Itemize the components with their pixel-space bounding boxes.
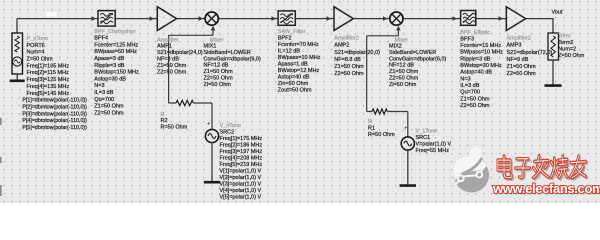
termination Term2 value labels — [558, 34, 585, 60]
svg-text:SAW_Filter: SAW_Filter — [278, 29, 306, 35]
svg-text:N=3: N=3 — [94, 83, 104, 89]
port PORT6 (P_nTone source symbol) — [12, 33, 23, 74]
svg-text:Astop=40 dB: Astop=40 dB — [460, 70, 492, 76]
resistor R2 (MIX1 LO series resistor) — [176, 100, 193, 105]
svg-text:NF=8.8 dB: NF=8.8 dB — [334, 57, 361, 63]
svg-text:Freq[3]=197 MHz: Freq[3]=197 MHz — [220, 149, 263, 155]
svg-text:Z2=50 Ohm: Z2=50 Ohm — [389, 76, 419, 82]
watermark logo circle — [454, 145, 489, 192]
svg-text:R: R — [161, 112, 165, 118]
resistor R2 value labels — [161, 112, 188, 131]
svg-text:Zi=50 Ohm: Zi=50 Ohm — [389, 82, 417, 88]
wire R1 to SRC1 and down — [367, 112, 408, 137]
svg-text:Zout=50 Ohm: Zout=50 Ohm — [278, 88, 312, 94]
svg-text:+: + — [404, 126, 408, 132]
svg-text:SRC2: SRC2 — [220, 130, 235, 136]
svg-text:SRC1: SRC1 — [416, 135, 431, 141]
source SRC1 (V_1Tone LO source) — [401, 137, 414, 150]
svg-text:Apass=1 dB: Apass=1 dB — [278, 62, 308, 68]
svg-text:Zin=50 Ohm: Zin=50 Ohm — [278, 81, 309, 87]
svg-text:NF=12 dB: NF=12 dB — [389, 63, 414, 69]
svg-text:Term2: Term2 — [558, 40, 573, 46]
wire MIX2 LO feed: vertical from R1 loop to mixer — [367, 28, 399, 112]
svg-text:P[1]=dbmtow(polar(-110,0)): P[1]=dbmtow(polar(-110,0)) — [22, 98, 87, 104]
source SRC1 value labels — [416, 129, 452, 155]
svg-text:Astop=40 dB: Astop=40 dB — [278, 75, 310, 81]
svg-text:MIX2: MIX2 — [389, 44, 402, 50]
wire AMP1 output to MIX1 RF input — [177, 18, 206, 20]
svg-text:Amplifier2: Amplifier2 — [507, 36, 531, 42]
svg-text:R=50 Ohm: R=50 Ohm — [161, 125, 188, 131]
svg-text:BWstop=150 MHz: BWstop=150 MHz — [94, 70, 139, 76]
svg-text:Freq[2]=115 MHz: Freq[2]=115 MHz — [27, 70, 69, 76]
svg-text:Amplifier: Amplifier — [157, 37, 179, 43]
svg-text:Fcenter=125 MHz: Fcenter=125 MHz — [94, 42, 138, 48]
svg-text:Zi=50 Ohm: Zi=50 Ohm — [204, 82, 232, 88]
svg-text:Z2=50 Ohm: Z2=50 Ohm — [460, 103, 490, 109]
svg-text:Freq=55 MHz: Freq=55 MHz — [416, 148, 450, 154]
op-amp style amplifier AMP1 — [157, 7, 176, 31]
wire port PORT6 to BPF4 input — [17, 19, 98, 33]
svg-text:Term: Term — [558, 34, 571, 40]
svg-text:Freq[3]=125 MHz: Freq[3]=125 MHz — [27, 77, 70, 83]
svg-text:NF=9 dB: NF=9 dB — [507, 57, 529, 63]
amplifier AMP2 value labels — [334, 36, 380, 78]
svg-text:Z1=50 Ohm: Z1=50 Ohm — [157, 63, 187, 69]
svg-text:V[2]=polar(1,0) V: V[2]=polar(1,0) V — [220, 175, 262, 181]
svg-text:Z1=50 Ohm: Z1=50 Ohm — [507, 64, 537, 70]
svg-text:Astop=30 dB: Astop=30 dB — [94, 76, 126, 82]
svg-text:NF=3 dB: NF=3 dB — [157, 57, 179, 63]
svg-text:P[5]=dbmtow(polar(-110,0)): P[5]=dbmtow(polar(-110,0)) — [22, 125, 87, 131]
amplifier AMP1 value labels — [157, 37, 203, 75]
svg-text:P[4]=dbmtow(polar(-110,0)): P[4]=dbmtow(polar(-110,0)) — [22, 118, 87, 124]
arrowhead into AMP3 — [499, 16, 504, 21]
ground below Term2 — [552, 60, 554, 86]
svg-text:Fcenter=15 MHz: Fcenter=15 MHz — [460, 43, 501, 49]
svg-text:R1: R1 — [368, 126, 375, 132]
arrowhead into AMP1 — [150, 16, 155, 21]
svg-text:V[3]=polar(1,0) V: V[3]=polar(1,0) V — [220, 182, 262, 188]
band-pass filter BPF3 (Elliptic) — [461, 11, 476, 26]
svg-text:SideBand=LOWER: SideBand=LOWER — [389, 50, 436, 56]
svg-text:Qu=700: Qu=700 — [460, 90, 480, 96]
svg-text:Z2=50 Ohm: Z2=50 Ohm — [334, 71, 364, 77]
svg-text:V=polar(1,0) V: V=polar(1,0) V — [416, 142, 452, 148]
arrowhead into AMP2 — [327, 16, 332, 21]
mixer MIX2 type value labels — [395, 38, 409, 44]
svg-text:Z2=50 Ohm: Z2=50 Ohm — [204, 76, 234, 82]
svg-text:Freq[1]=105 MHz: Freq[1]=105 MHz — [27, 63, 70, 69]
filter BPF2 value labels — [278, 29, 321, 94]
svg-text:Vout: Vout — [552, 10, 563, 16]
svg-text:Num=4: Num=4 — [27, 50, 45, 56]
svg-text:Ripple=3 dB: Ripple=3 dB — [94, 63, 124, 69]
svg-text:Freq[4]=135 MHz: Freq[4]=135 MHz — [27, 84, 70, 90]
arrowhead into MIX2 — [383, 16, 388, 21]
band-pass filter BPF4 (Chebyshev) — [98, 11, 115, 27]
svg-text:BPF_Chebyshev: BPF_Chebyshev — [94, 29, 136, 35]
svg-text:IL=3 dB: IL=3 dB — [460, 83, 479, 89]
svg-text:Freq[4]=208 MHz: Freq[4]=208 MHz — [220, 156, 263, 162]
svg-text:Z=50 Ohm: Z=50 Ohm — [558, 53, 585, 59]
svg-text:S21=dbpolar(72,0): S21=dbpolar(72,0) — [507, 50, 553, 56]
svg-text:BWpass=10 MHz: BWpass=10 MHz — [460, 50, 503, 56]
svg-text:NF=12 dB: NF=12 dB — [204, 63, 229, 69]
svg-text:V[1]=polar(1,0) V: V[1]=polar(1,0) V — [220, 169, 262, 175]
ground below PORT6 — [16, 74, 18, 81]
wire MIX1 IF output to BPF2 input — [218, 18, 278, 20]
svg-text:Amplifier2: Amplifier2 — [334, 36, 358, 42]
svg-text:IL=12 dB: IL=12 dB — [278, 49, 301, 55]
svg-text:BWpass=10 MHz: BWpass=10 MHz — [278, 55, 321, 61]
arrowhead into BPF4 — [92, 16, 97, 21]
svg-text:Fcenter=70 MHz: Fcenter=70 MHz — [278, 42, 319, 48]
svg-text:Ripple=3 dB: Ripple=3 dB — [460, 56, 490, 62]
svg-text:Z1=50 Ohm: Z1=50 Ohm — [204, 69, 234, 75]
wire MIX2 IF output to BPF3 input — [403, 18, 461, 20]
svg-text:Z1=50 Ohm: Z1=50 Ohm — [460, 96, 490, 102]
mixer MIX1 — [205, 12, 218, 25]
svg-text:Z1=50 Ohm: Z1=50 Ohm — [334, 64, 364, 70]
svg-text:www.elecfans.com: www.elecfans.com — [492, 181, 600, 196]
svg-text:R=50 Ohm: R=50 Ohm — [368, 132, 395, 138]
svg-text:V_1Tone: V_1Tone — [416, 129, 438, 135]
svg-text:R: R — [368, 119, 372, 125]
svg-text:N=3: N=3 — [460, 76, 470, 82]
resistor R1 value labels — [368, 119, 395, 138]
arrowhead into BPF2 — [272, 16, 277, 21]
termination Term2 (resistor box) — [548, 33, 559, 60]
resistor R1 (MIX2 LO series resistor) — [372, 109, 387, 114]
svg-text:Z1=50 Ohm: Z1=50 Ohm — [389, 69, 419, 75]
wire BPF3 output to AMP3 input — [476, 18, 507, 20]
svg-text:ConvGain=dbpolar(6,0): ConvGain=dbpolar(6,0) — [389, 56, 446, 62]
svg-text:P_nTone: P_nTone — [27, 36, 49, 42]
watermark text www.elecfans.com — [492, 181, 600, 197]
band-pass filter BPF2 (SAW filter) — [278, 11, 295, 25]
svg-text:PORT6: PORT6 — [27, 43, 45, 49]
svg-text:BWstop=12 MHz: BWstop=12 MHz — [278, 68, 320, 74]
arrowhead MIX1 LO up — [211, 26, 216, 31]
port PORT6 value labels — [27, 36, 70, 97]
svg-text:IL=3 dB: IL=3 dB — [94, 90, 113, 96]
svg-text:MIX1: MIX1 — [204, 44, 217, 50]
source SRC2 value labels — [220, 123, 263, 201]
watermark text dian-zi-fa-shao-you (drawn strokes) — [498, 156, 587, 180]
svg-text:AMP2: AMP2 — [334, 43, 349, 49]
ground below SRC1 — [407, 150, 409, 186]
wire BPF4 output to AMP1 input — [115, 18, 157, 20]
svg-text:Apass=3 dB: Apass=3 dB — [94, 56, 124, 62]
svg-text:Z=50 Ohm: Z=50 Ohm — [27, 57, 54, 63]
blank label patch — [46, 12, 57, 17]
svg-text:SideBand=LOWER: SideBand=LOWER — [204, 50, 251, 56]
svg-text:ConvGain=dbpolar(6,0): ConvGain=dbpolar(6,0) — [204, 56, 261, 62]
svg-text:AMP3: AMP3 — [507, 43, 522, 49]
svg-text:+: + — [207, 122, 211, 128]
wire AMP3 output to node Vout and Term2 — [526, 19, 553, 33]
amplifier AMP3 value labels — [507, 36, 553, 78]
svg-text:Freq[2]=186 MHz: Freq[2]=186 MHz — [220, 143, 263, 149]
amplifier AMP2 — [334, 7, 353, 31]
wire AMP2 output to MIX2 RF input — [353, 18, 390, 20]
svg-text:Num=2: Num=2 — [558, 47, 576, 53]
svg-text:S21=dbpolar(20,0): S21=dbpolar(20,0) — [334, 50, 380, 56]
svg-text:Freq[5]=145 MHz: Freq[5]=145 MHz — [27, 91, 70, 97]
mixer MIX1 value labels — [204, 44, 261, 88]
svg-text:BWstop=30 MHz: BWstop=30 MHz — [460, 63, 502, 69]
edge artifact marks — [0, 118, 2, 196]
svg-text:BPF3: BPF3 — [460, 36, 474, 42]
svg-text:Qu=700: Qu=700 — [94, 97, 114, 103]
mixer MIX1 type value labels — [210, 38, 224, 44]
svg-text:BPF4: BPF4 — [94, 36, 108, 42]
port PORT6 power levels value labels — [22, 98, 87, 131]
arrowhead MIX2 LO up — [396, 26, 401, 31]
svg-text:R2: R2 — [161, 118, 168, 124]
svg-text:Z2=50 Ohm: Z2=50 Ohm — [507, 71, 537, 77]
source SRC2 (V_nTone LO source) — [205, 129, 218, 142]
wire R2 to SRC2 and down — [169, 103, 212, 130]
filter BPF3 value labels — [460, 30, 503, 109]
svg-text:Z2=50 Ohm: Z2=50 Ohm — [94, 110, 124, 116]
svg-text:Freq[5]=219 MHz: Freq[5]=219 MHz — [220, 162, 263, 168]
wire MIX1 LO feed: vertical from R2 loop to mixer — [169, 28, 213, 104]
svg-text:BPF_Elliptic: BPF_Elliptic — [460, 30, 490, 36]
svg-text:BPF2: BPF2 — [278, 36, 292, 42]
svg-text:P[2]=dbmtow(polar(-110,0)): P[2]=dbmtow(polar(-110,0)) — [22, 105, 87, 111]
svg-text:Z1=50 Ohm: Z1=50 Ohm — [94, 104, 124, 110]
arrowhead into MIX1 — [199, 16, 204, 21]
svg-text:P[3]=dbmtow(polar(-110,0)): P[3]=dbmtow(polar(-110,0)) — [22, 111, 87, 117]
svg-text:V[4]=polar(1,0) V: V[4]=polar(1,0) V — [220, 188, 262, 194]
svg-text:Z2=50 Ohm: Z2=50 Ohm — [157, 69, 187, 75]
ground below SRC2 — [211, 143, 213, 183]
svg-text:Freq[1]=175 MHz: Freq[1]=175 MHz — [220, 136, 263, 142]
arrowhead into BPF3 — [453, 16, 458, 21]
filter BPF4 value labels — [94, 29, 139, 117]
svg-text:S21=dbpolar(24,0): S21=dbpolar(24,0) — [157, 50, 203, 56]
svg-text:V_nTone: V_nTone — [220, 123, 242, 129]
mixer MIX2 — [390, 12, 403, 25]
amplifier AMP3 — [506, 7, 525, 31]
svg-text:V[5]=polar(1,0) V: V[5]=polar(1,0) V — [220, 195, 262, 201]
mixer MIX2 value labels — [389, 44, 446, 88]
svg-text:BWpass=50 MHz: BWpass=50 MHz — [94, 49, 137, 55]
svg-text:AMP1: AMP1 — [157, 44, 172, 50]
wire BPF2 output to AMP2 input — [295, 18, 334, 20]
